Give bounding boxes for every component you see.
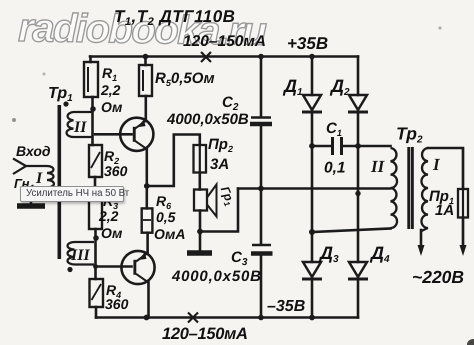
- svg-text:360: 360: [105, 296, 129, 312]
- svg-text:Тр2: Тр2: [396, 124, 423, 146]
- svg-text:Гр1: Гр1: [216, 184, 238, 208]
- svg-text:II: II: [73, 119, 87, 136]
- svg-text:4000,0х50В: 4000,0х50В: [171, 268, 262, 285]
- svg-text:3А: 3А: [210, 156, 229, 173]
- svg-text:0,5: 0,5: [156, 209, 176, 225]
- svg-text:С3: С3: [231, 249, 248, 268]
- svg-text:+35В: +35В: [287, 34, 328, 53]
- svg-text:4000,0х50В: 4000,0х50В: [166, 111, 249, 128]
- svg-text:–35В: –35В: [267, 298, 305, 315]
- svg-text:Д2: Д2: [329, 76, 350, 98]
- svg-text:2,2: 2,2: [100, 82, 121, 98]
- svg-text:Д4: Д4: [369, 243, 390, 265]
- svg-text:Т1,Т2 ДТГ110В: Т1,Т2 ДТГ110В: [114, 7, 235, 28]
- svg-text:II: II: [370, 157, 386, 176]
- svg-text:Тр1: Тр1: [48, 85, 73, 104]
- svg-text:120–150мА: 120–150мА: [162, 325, 248, 343]
- svg-text:Вход: Вход: [16, 143, 51, 159]
- svg-text:I: I: [432, 155, 441, 174]
- svg-text:R50,5Ом: R50,5Ом: [155, 70, 215, 88]
- svg-text:Пр2: Пр2: [208, 136, 233, 154]
- svg-text:Ом: Ом: [101, 225, 123, 241]
- svg-text:R1: R1: [102, 65, 117, 83]
- svg-text:360: 360: [104, 163, 128, 179]
- svg-text:Д1: Д1: [282, 76, 303, 98]
- svg-text:III: III: [70, 247, 90, 264]
- svg-text:Ом: Ом: [101, 99, 123, 115]
- svg-text:ОмА: ОмА: [154, 226, 186, 242]
- svg-text:С1: С1: [326, 120, 342, 138]
- svg-text:I: I: [35, 170, 43, 187]
- svg-text:1А: 1А: [435, 202, 454, 219]
- svg-text:~220В: ~220В: [412, 267, 464, 287]
- svg-text:Д3: Д3: [318, 243, 339, 265]
- svg-text:0,1: 0,1: [324, 160, 346, 177]
- svg-text:120–150мА: 120–150мА: [183, 33, 266, 50]
- svg-text:2,2: 2,2: [98, 208, 119, 224]
